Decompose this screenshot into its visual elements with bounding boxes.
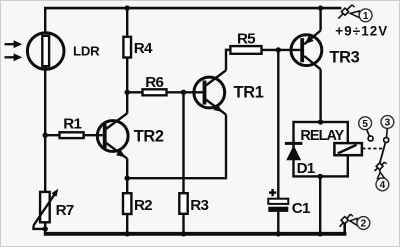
svg-text:+9÷12V: +9÷12V xyxy=(335,23,388,38)
resistor R1 xyxy=(60,132,84,138)
transistor TR3 (PNP) xyxy=(291,31,322,70)
wire: bottom ground rail xyxy=(44,232,347,236)
wire: R6 left lead xyxy=(127,91,142,93)
photoresistor LDR xyxy=(27,33,64,70)
svg-text:3: 3 xyxy=(385,118,391,129)
wire: terminal 5 to contact xyxy=(367,129,370,136)
resistor R4 xyxy=(123,37,131,58)
node: junction dot rail/C1 xyxy=(276,231,281,236)
svg-text:5: 5 xyxy=(362,119,368,130)
svg-text:R1: R1 xyxy=(63,116,82,133)
relay lever xyxy=(380,142,386,163)
wire: C1 top lead from TR3 base node xyxy=(277,50,279,199)
light arrow upper xyxy=(5,40,23,48)
terminal 1 connector xyxy=(338,5,359,19)
node: junction dot rail/R2 xyxy=(125,231,130,236)
wire: R4 top lead xyxy=(126,8,128,37)
node: junction dot rail/relay xyxy=(318,231,323,236)
svg-text:RELAY: RELAY xyxy=(300,128,344,144)
terminal 4 connector xyxy=(374,162,386,178)
light arrow lower xyxy=(5,53,23,61)
node: junction dot top rail / R4 column xyxy=(125,5,130,10)
svg-text:TR3: TR3 xyxy=(329,49,359,67)
wire: TR2 emitter down to R2 node xyxy=(126,159,128,179)
wire: R1 left lead xyxy=(45,134,59,136)
wire: R7 bottom lead xyxy=(44,222,46,234)
svg-text:R4: R4 xyxy=(134,40,153,57)
wire: emitter row TR2 to TR1 xyxy=(127,115,226,179)
wire: terminal 3 to contact xyxy=(386,128,389,137)
node: junction dot R4/R6/TR2 collector xyxy=(125,90,130,95)
capacitor C1 xyxy=(268,199,288,212)
wire: R4 bottom lead to R6 node xyxy=(126,58,128,93)
svg-text:D1: D1 xyxy=(297,160,316,177)
terminal 1 circle xyxy=(359,9,372,22)
wire: left column LDR to R7 xyxy=(44,66,46,192)
wire: R5 right lead to C1/TR3 base node xyxy=(262,49,279,51)
node: junction dot relay top / TR3 collector xyxy=(318,119,323,124)
node: junction dot R5/TR3 base/C1 xyxy=(276,47,281,52)
resistor R2 xyxy=(123,193,131,214)
svg-text:R3: R3 xyxy=(190,197,208,214)
resistor R3 xyxy=(179,193,187,214)
relay contact under 3 xyxy=(384,138,389,143)
wire: TR3 emitter up to top rail xyxy=(319,8,321,30)
resistor R6 xyxy=(143,89,167,95)
resistor R5 xyxy=(230,46,261,54)
terminal 2 circle xyxy=(357,217,370,230)
wire: ground rail stub to terminal 2 xyxy=(343,223,346,235)
wire: R2 bottom lead xyxy=(126,214,128,234)
svg-text:TR1: TR1 xyxy=(234,84,264,102)
mechanical link dashed xyxy=(362,148,383,150)
wire: TR2 collector up to R4/R6 node xyxy=(126,92,128,113)
wire: C1 bottom lead xyxy=(277,212,279,234)
label C1 plus xyxy=(269,189,276,196)
svg-text:4: 4 xyxy=(380,180,386,191)
wire: R1 right lead to TR2 base xyxy=(84,134,103,136)
wire: TR1 collector up to R5 xyxy=(226,50,230,71)
svg-text:R6: R6 xyxy=(145,74,163,91)
node: junction dot top rail / TR3 emitter xyxy=(318,5,323,10)
transistor TR1 xyxy=(194,70,226,114)
node: junction dot R7 bottom xyxy=(43,226,48,231)
svg-text:R2: R2 xyxy=(134,197,152,214)
node: junction dot relay bottom xyxy=(318,174,323,179)
node: junction dot TR2 emitter/R2 xyxy=(125,176,130,181)
wire: TR3 base lead xyxy=(278,49,300,51)
diode D1 xyxy=(285,142,303,160)
wire: TR3 collector down to relay xyxy=(319,69,321,122)
svg-text:2: 2 xyxy=(361,219,367,230)
terminal 2 connector xyxy=(340,214,358,227)
wire: LDR top lead xyxy=(44,8,46,36)
node: junction dot R6/R3/TR1 base xyxy=(181,90,186,95)
svg-text:R7: R7 xyxy=(56,202,74,219)
svg-text:LDR: LDR xyxy=(73,43,100,58)
terminal 3 circle xyxy=(381,116,394,129)
wire: R2 top lead xyxy=(126,178,128,193)
svg-text:C1: C1 xyxy=(292,200,311,217)
terminal 5 circle xyxy=(359,117,372,130)
wire: relay bottom to ground rail xyxy=(319,176,321,233)
wire: R6 right lead to TR1 base node xyxy=(167,91,184,93)
relay coil xyxy=(334,143,362,155)
wire: R3 bottom lead xyxy=(182,214,184,234)
potentiometer R7 xyxy=(34,189,59,226)
wire: R7 wiper return xyxy=(34,226,46,229)
svg-text:R5: R5 xyxy=(237,31,256,48)
wire: top supply rail xyxy=(44,7,341,10)
wire: TR1 base lead xyxy=(184,91,203,93)
relay box xyxy=(294,122,348,176)
node: junction dot left column / R1 xyxy=(43,133,48,138)
node: junction dot rail/R3 xyxy=(181,231,186,236)
svg-text:1: 1 xyxy=(363,11,369,22)
transistor TR2 xyxy=(97,113,128,158)
svg-text:TR2: TR2 xyxy=(134,128,164,146)
terminal 4 circle xyxy=(376,178,389,191)
wire: R3 top lead from TR1 base node xyxy=(182,92,184,193)
relay contact under 5 xyxy=(368,136,373,141)
